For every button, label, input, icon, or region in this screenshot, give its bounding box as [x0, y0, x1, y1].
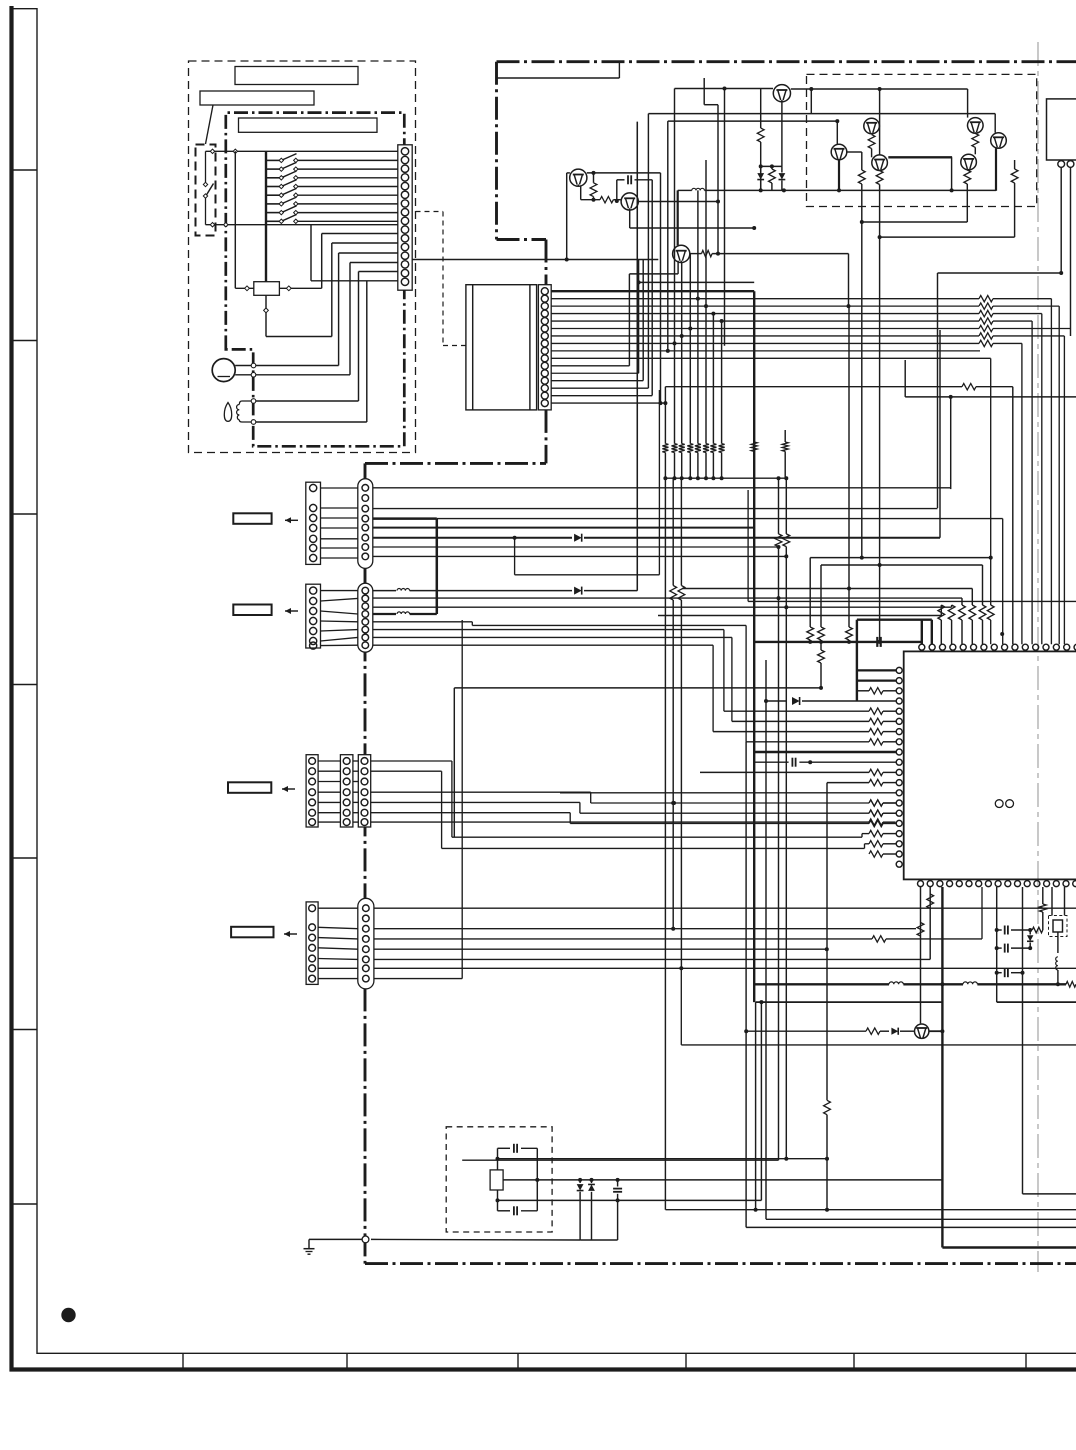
resistor R_q1	[590, 183, 597, 197]
trunk x786 lower	[785, 478, 787, 534]
bold corner bottom right	[942, 1246, 1076, 1248]
bottom border tick marks	[182, 1353, 184, 1369]
CN3 row 3	[373, 508, 938, 510]
mech row 1 bold	[551, 290, 754, 292]
wire row pin10	[206, 224, 398, 226]
resonator X2	[1053, 920, 1063, 932]
PCB boundary jog to CN2	[497, 238, 547, 241]
row y601.4	[748, 600, 1076, 602]
resistor above cap row 3	[848, 306, 850, 627]
row y1219	[766, 1218, 1076, 1220]
CN5 row 4 staircase	[371, 791, 591, 793]
crystal X1	[490, 1170, 503, 1190]
keyboard PCB dash-dot boundary	[226, 113, 404, 447]
CN6 row 6	[374, 958, 930, 960]
CN4 row 1 diode	[373, 590, 396, 592]
array lower link 2	[879, 185, 881, 642]
CN4 row 5	[373, 629, 724, 631]
label box CN4	[233, 605, 271, 616]
connector CN6 housing	[306, 902, 318, 985]
U1 bottom pin1 wire	[920, 887, 922, 1023]
U1 top feeder rows	[810, 557, 991, 559]
CN4 row 2	[373, 597, 962, 599]
row y396.9	[905, 396, 1076, 398]
cap C30 row	[997, 929, 1002, 931]
Q11 base parts	[746, 1030, 866, 1032]
CN6 row 7	[374, 967, 1076, 969]
resistor above cap row 2	[820, 565, 822, 627]
CN4 row 4	[373, 621, 473, 623]
U1 inner pads	[995, 800, 1003, 808]
PCB boundary notch	[497, 77, 620, 79]
label box 3	[239, 118, 378, 132]
resistor R_q8b	[858, 170, 865, 184]
transistor Q3	[673, 245, 690, 262]
key switches SW1-SW8	[266, 159, 281, 161]
motor wires	[235, 365, 338, 367]
X1 right rail	[536, 1148, 538, 1211]
CN4 row 6	[373, 636, 732, 638]
keyboard connector drop wires	[310, 225, 312, 281]
CN6 row 3	[374, 928, 916, 930]
connector CN3 oval	[358, 479, 373, 569]
wire row pin1	[206, 150, 398, 152]
CN6 row 5	[374, 948, 827, 950]
IC U2 pins	[1058, 161, 1065, 168]
row y1160	[462, 1159, 778, 1161]
Q9-Q10 bold link	[888, 156, 952, 158]
X1 row 1	[498, 1158, 828, 1160]
dashed leader	[416, 211, 444, 213]
Q2 emitter path	[629, 210, 631, 228]
U1 bottom pin2 wire	[929, 887, 931, 959]
U1 left pin row 13	[560, 792, 896, 794]
PCB boundary main vertical dash-dot	[364, 463, 367, 1263]
single resistor A	[751, 442, 757, 451]
U1 top pins	[919, 644, 925, 650]
CN3 row 6 diode	[373, 537, 572, 539]
switch S0	[205, 151, 207, 183]
U1 left pin row 11	[700, 771, 869, 773]
lamp L1	[224, 403, 231, 422]
trunk x665 lower	[664, 478, 666, 1209]
label box 2	[200, 91, 314, 105]
U1 top pin resistors	[940, 605, 942, 616]
CN3 row 8 bold	[373, 527, 754, 529]
Q1-Q2 base row	[581, 199, 600, 201]
row y386.7 with resistor	[665, 386, 962, 388]
CN6 row 4 resistor	[374, 938, 872, 940]
ground wire	[309, 1238, 362, 1240]
resistor R_q6	[972, 133, 979, 147]
CN6 row 8	[374, 978, 462, 980]
zener D_z1	[757, 173, 764, 179]
page frame inner border	[36, 8, 38, 1354]
bold rail cap row	[754, 641, 922, 643]
ground node	[362, 1236, 369, 1243]
IC U1 body	[904, 651, 1076, 879]
CN5 row 5 staircase	[371, 801, 580, 803]
U1 bottom pins	[918, 881, 924, 887]
keyboard unit dashed enclosure	[189, 61, 416, 453]
page fold line (gray)	[1037, 42, 1039, 1272]
CN4 jumper wires	[321, 590, 358, 592]
U1 left pin row 10 cap	[754, 761, 789, 763]
CN6 jumper wires	[318, 907, 358, 909]
resistor R_z	[769, 169, 776, 183]
coil L_q3	[678, 189, 692, 191]
resistor R_q4	[760, 89, 762, 129]
X1 row 3	[498, 1199, 762, 1201]
arrow CN4	[285, 610, 298, 612]
connector CN4 housing	[306, 584, 321, 648]
trunk x637 upper	[636, 122, 638, 591]
arrow CN5	[282, 788, 295, 790]
wire pin16 row	[311, 280, 398, 282]
wire Q3 base up	[717, 105, 719, 254]
trunk down 13	[647, 114, 649, 389]
vertical x761 crystal	[760, 1002, 762, 1200]
ground bus	[580, 1239, 618, 1241]
X1 bottom cap	[498, 1210, 511, 1212]
Q11 emitter	[929, 1030, 942, 1032]
diode D_z2	[779, 173, 786, 179]
resistor bank verticals	[664, 387, 666, 444]
key matrix bus	[265, 151, 267, 281]
trunk x778 lower	[778, 478, 780, 534]
U1 left pin row 3	[857, 690, 869, 692]
Q2 top wire + cap C_q	[617, 179, 625, 181]
connector CN6 oval	[358, 898, 374, 989]
arrow CN3	[285, 519, 298, 521]
sub box right	[996, 887, 998, 1002]
array lower link 1	[861, 184, 863, 557]
leader line	[206, 105, 214, 144]
cap C31 row	[997, 947, 1002, 949]
trunk x673 lower	[672, 478, 674, 585]
CN3 row 1	[373, 487, 951, 489]
Q3 base row	[690, 253, 702, 255]
U1 left bold pin rows	[857, 669, 896, 671]
Q8 emitter bold	[838, 160, 840, 191]
array top row	[791, 88, 968, 90]
transistor Q1	[570, 169, 587, 186]
connector CN2	[538, 285, 551, 410]
CN3 row4 east extension	[437, 518, 1003, 520]
transistor Q5	[864, 118, 880, 134]
registration dot	[61, 1308, 75, 1322]
transistor Q10	[961, 154, 977, 170]
row y1209	[666, 1209, 1076, 1211]
crystal dashed box	[446, 1127, 552, 1232]
resistor R_q2	[600, 197, 613, 203]
page frame outer border	[9, 6, 13, 1372]
zener row	[761, 165, 782, 167]
diode D20	[579, 1180, 581, 1183]
CN5 row 2	[371, 770, 442, 772]
resonator pin wires	[1051, 887, 1053, 916]
wire vertical	[234, 151, 236, 288]
Q3 collector bold	[677, 190, 679, 245]
diode D21	[591, 1180, 593, 1183]
trunk down 14	[667, 121, 669, 351]
connector CN3 housing	[306, 482, 321, 564]
trunk x681 lower	[680, 478, 682, 585]
vertical x451.9	[451, 761, 453, 837]
X1 left rail	[497, 1148, 499, 1170]
CN4 row 3	[373, 606, 952, 608]
array row 2 drop	[994, 114, 996, 133]
PCB boundary below CN2	[545, 410, 548, 464]
arrow CN6	[284, 933, 297, 935]
resistor R_q5	[868, 135, 875, 149]
Q1 wires	[567, 172, 570, 174]
transistor Q7	[991, 133, 1007, 149]
zener/diode stubs	[760, 166, 762, 172]
long row y1044	[681, 1044, 1076, 1046]
resistor R_q10e	[964, 170, 971, 184]
cap feeder vertical	[1022, 887, 1024, 1194]
bold row y1002	[756, 1001, 943, 1003]
X1 row 2	[503, 1179, 942, 1181]
switch S0 dashed box	[196, 145, 216, 236]
CN3 row 7	[373, 546, 779, 548]
single resistor B	[784, 430, 786, 442]
U1 left pin resistors 14-19	[869, 800, 883, 806]
CN5 row 7	[371, 821, 869, 823]
ground symbol	[304, 1248, 315, 1250]
CN4 row 7	[373, 644, 713, 646]
left border tick marks	[11, 169, 37, 171]
label box CN3	[233, 513, 271, 524]
connector CN5 strip C	[358, 755, 370, 827]
resistor R_kb	[254, 282, 280, 296]
transistor Q9	[872, 155, 888, 171]
mech fan-out rows with resistors	[551, 298, 979, 300]
transistor Q8	[831, 144, 847, 160]
wire row y260	[412, 259, 658, 261]
resistor R_q3	[702, 250, 713, 256]
row y1227	[746, 1226, 1076, 1228]
U1 left pin row 9 bold	[754, 751, 896, 753]
label box CN6	[231, 927, 273, 938]
CN6 row 1	[374, 907, 1076, 909]
connector CN5 housing B	[340, 755, 353, 827]
wire Q3 row corner down	[848, 254, 850, 307]
CN3 jumper wires	[321, 487, 358, 489]
bold rail y984	[753, 983, 889, 985]
cap C32 row	[997, 972, 1002, 974]
driver array dashed box	[807, 74, 1037, 206]
CN4 row 3 bold coil	[373, 613, 396, 615]
bold rail to U1 pin1/2	[857, 619, 932, 621]
big loop wire	[454, 687, 821, 689]
CN5 row 1	[371, 760, 452, 762]
CN3 row 9	[373, 555, 787, 557]
connector CN5 housing A	[306, 755, 318, 827]
U2 pin wires	[1060, 167, 1062, 273]
transistor Q11	[915, 1024, 929, 1038]
resistor above cap row 1	[809, 558, 811, 627]
vertical x462.2	[461, 620, 463, 979]
mechanism block	[466, 285, 537, 410]
PCB boundary top dash-dot	[497, 60, 1076, 63]
coil L3	[1056, 957, 1058, 970]
CN5 row 6 staircase	[371, 812, 571, 814]
X1 top cap	[498, 1147, 511, 1149]
Q4 base row	[675, 88, 774, 90]
transistor Q2	[621, 193, 638, 210]
transistor Q4	[773, 85, 790, 102]
motor M1	[212, 359, 235, 382]
resistor below cap row	[818, 650, 825, 663]
PCB boundary left dash-dot	[495, 62, 498, 240]
wire row y275	[629, 273, 678, 275]
mech fan-out rows lower	[551, 350, 980, 352]
array row 3 drop	[835, 119, 839, 123]
resistor R_q7e	[1011, 169, 1018, 183]
trunk x766 lower	[765, 701, 767, 1219]
resistor bank bus	[665, 477, 786, 479]
capacitor C20	[617, 1180, 619, 1187]
PCB boundary horizontal to main bus	[365, 462, 546, 465]
bold vertical	[941, 887, 943, 1248]
PCB boundary bottom dash-dot	[365, 1262, 1076, 1265]
CN3 row 4 bold L	[373, 517, 437, 520]
Q7 emitter bold	[995, 148, 997, 191]
wire resistor bottom	[265, 295, 267, 336]
U1 left pins	[896, 667, 902, 673]
label box CN5	[228, 782, 271, 793]
wire row U2	[938, 272, 1062, 274]
connector CN4 oval	[358, 583, 373, 652]
wire rows pins 11-15	[322, 233, 398, 235]
Q2 collector row	[638, 201, 718, 203]
trunk x746 lower	[745, 742, 747, 1228]
label box 1	[235, 67, 358, 85]
U1 left pin rows 5-8	[724, 710, 869, 712]
connector CN1	[398, 145, 412, 290]
resistor R_q9e	[876, 171, 883, 185]
transistor Q6	[968, 118, 984, 134]
vertical x514.6	[514, 538, 516, 575]
U1 left pin row 4 diode	[766, 700, 786, 702]
IC U2 box	[1047, 99, 1076, 160]
lamp wires	[254, 400, 359, 402]
zener D10	[1029, 930, 1031, 935]
U1 left pin row 12	[827, 782, 869, 784]
CN5 jumper wires	[318, 760, 340, 762]
